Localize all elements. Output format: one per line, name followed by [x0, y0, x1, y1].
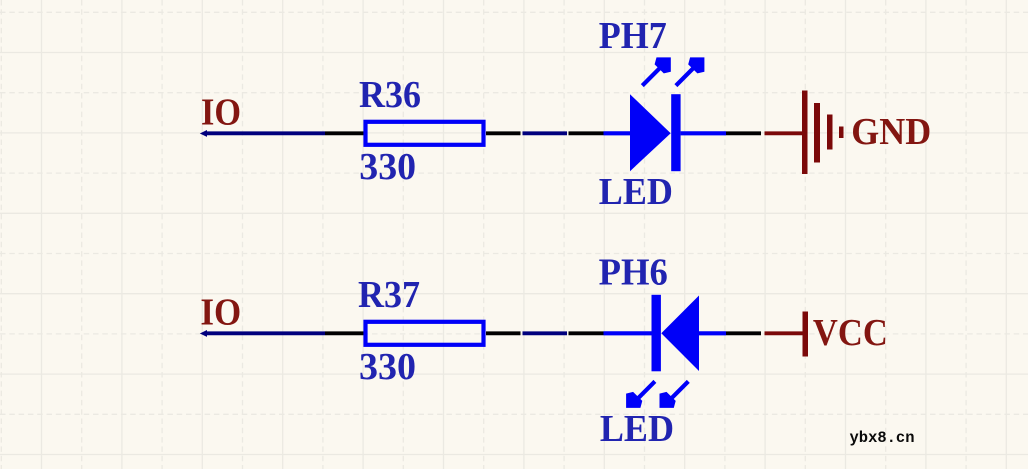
svg-text:IO: IO	[201, 92, 241, 134]
svg-text:VCC: VCC	[813, 312, 888, 354]
svg-text:PH6: PH6	[599, 252, 668, 294]
svg-text:330: 330	[359, 146, 416, 188]
svg-text:GND: GND	[851, 111, 931, 153]
svg-text:IO: IO	[200, 292, 241, 334]
svg-text:R37: R37	[358, 274, 420, 316]
svg-text:LED: LED	[600, 408, 674, 450]
svg-text:330: 330	[359, 346, 416, 388]
svg-text:ybx8.cn: ybx8.cn	[850, 429, 915, 447]
svg-text:R36: R36	[359, 74, 421, 116]
svg-text:PH7: PH7	[599, 15, 667, 57]
svg-text:LED: LED	[599, 171, 673, 213]
